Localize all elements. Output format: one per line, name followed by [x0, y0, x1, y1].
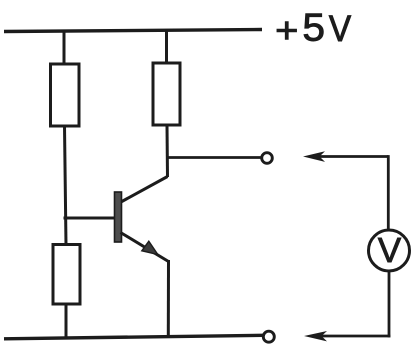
transistor Q1 emitter lead — [121, 233, 169, 262]
emitter arrowhead — [142, 241, 158, 254]
wire: R3 to bottom rail — [65, 304, 68, 338]
terminal: bottom output (open circle) — [263, 331, 274, 342]
wire: R2 to collector junction — [166, 125, 170, 177]
wire: top voltmeter lead — [318, 155, 388, 158]
transistor Q1 base bar — [115, 192, 122, 242]
wire: emitter to bottom rail — [167, 260, 170, 336]
wire: R1 to base junction — [65, 126, 67, 245]
wire: base lead to Q1 — [64, 217, 117, 220]
top +5V supply rail — [4, 30, 262, 32]
terminal: top output (open circle) — [262, 153, 273, 164]
output wire: collector node to top terminal — [166, 156, 262, 159]
wire: rail to R1 — [63, 30, 66, 66]
voltmeter V1 label — [378, 238, 401, 262]
resistor R2 — [153, 63, 180, 125]
label +5V — [277, 14, 351, 41]
wire: bottom voltmeter lead — [320, 335, 390, 338]
wire: right vertical to voltmeter — [387, 155, 390, 230]
wire: rail to R2 — [165, 29, 168, 64]
resistor R1 — [51, 64, 80, 126]
voltmeter V1 circle — [369, 230, 410, 271]
bottom rail / ground wire to terminal — [4, 335, 263, 339]
wire: voltmeter to bottom corner — [388, 271, 391, 337]
arrow: bottom voltmeter lead arrowhead — [304, 331, 327, 341]
resistor R3 — [53, 245, 80, 305]
arrow: top voltmeter lead arrowhead — [303, 151, 325, 162]
transistor Q1 collector lead — [120, 177, 168, 203]
